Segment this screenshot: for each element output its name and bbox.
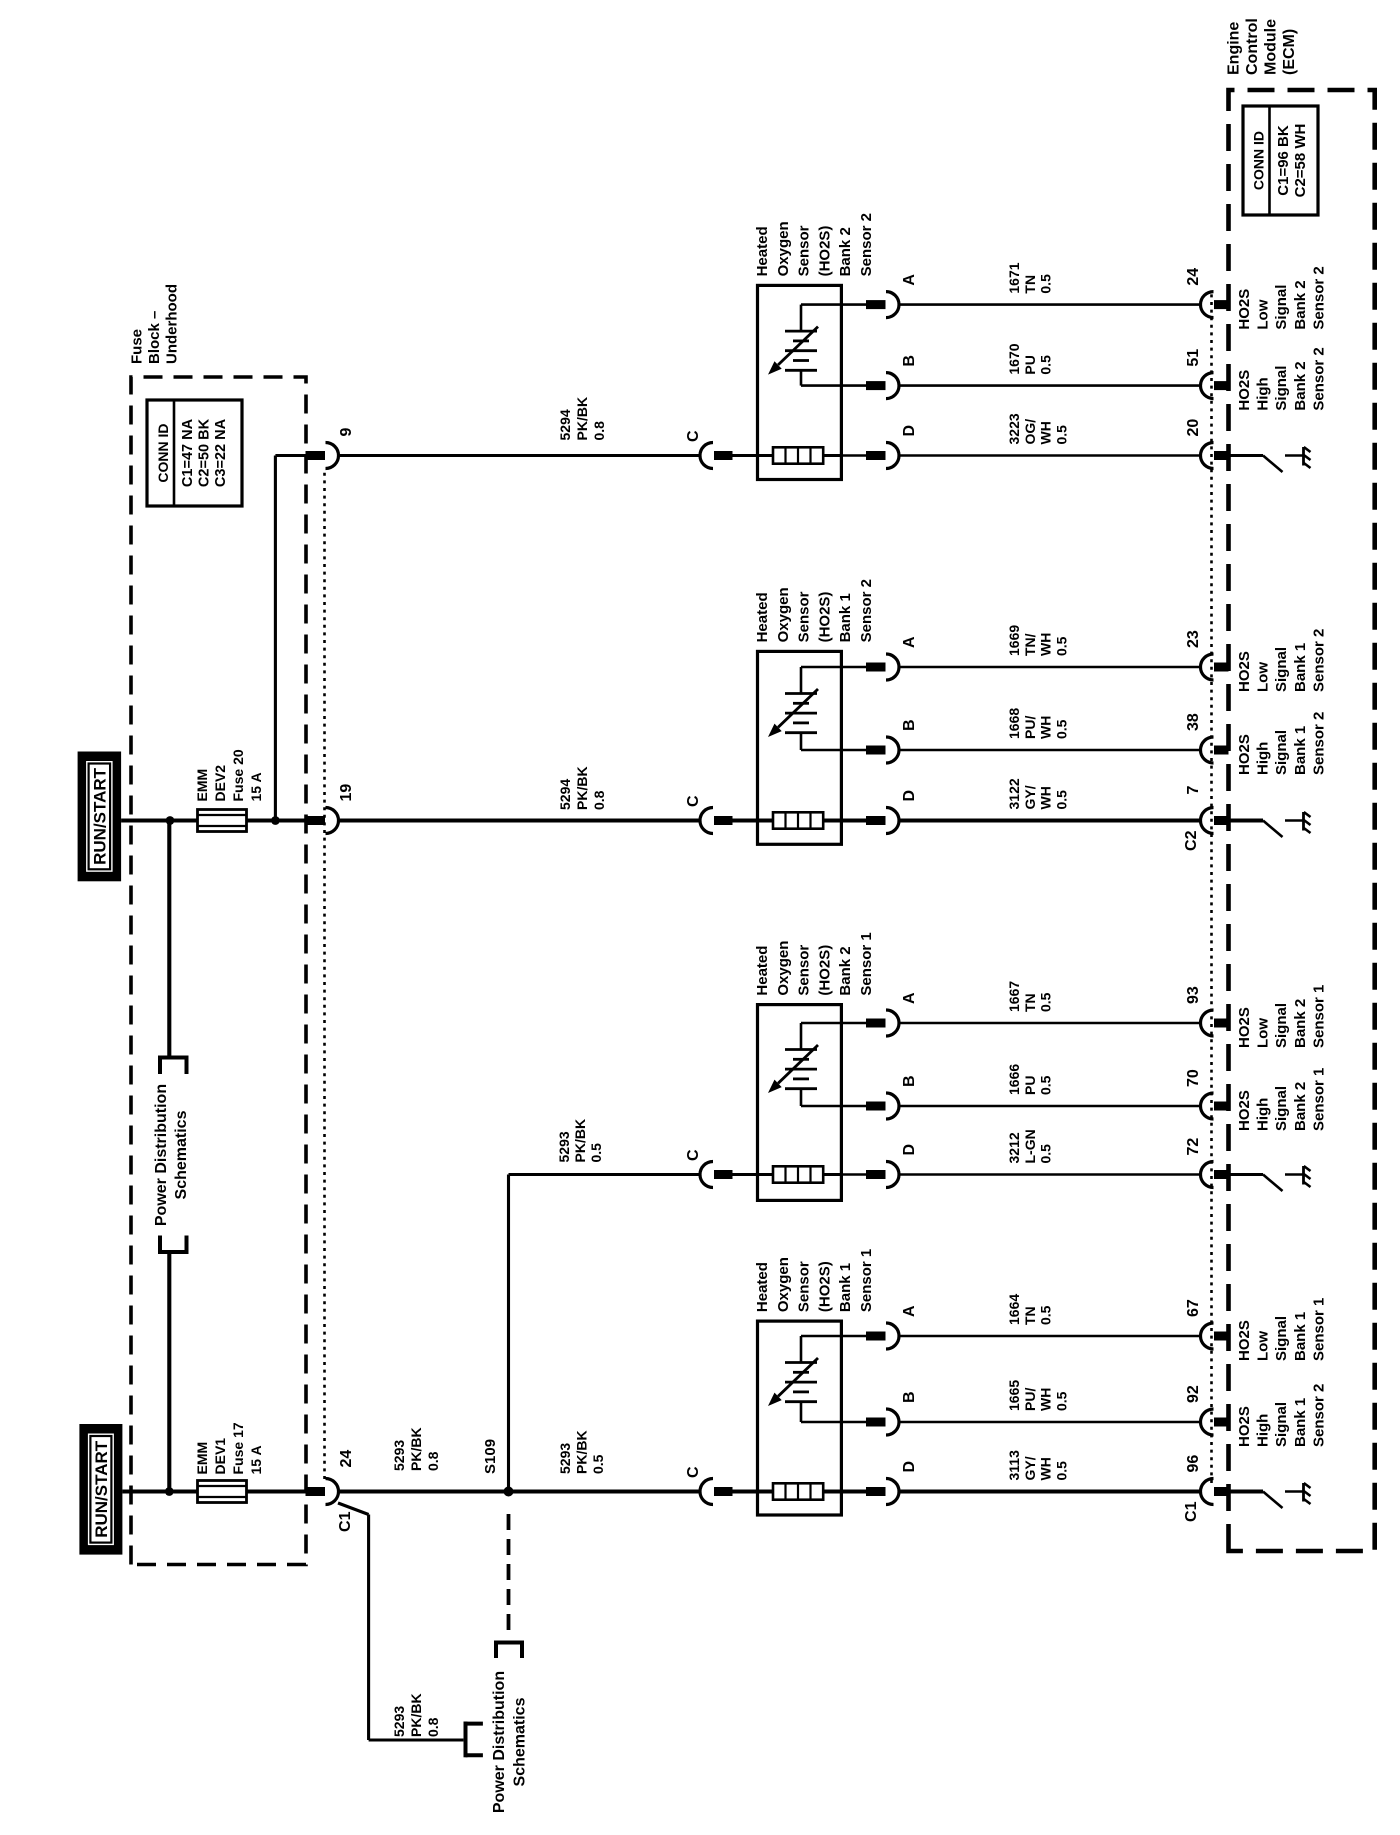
branch wire 5293 PK/BK 0.8 from connector 24 to power distribution (338, 1503, 463, 1740)
svg-text:C: C (685, 1149, 702, 1161)
svg-text:PK/BK: PK/BK (574, 397, 590, 441)
svg-text:Signal: Signal (1273, 366, 1290, 411)
svg-text:Bank 2: Bank 2 (1292, 1082, 1309, 1131)
svg-text:5294: 5294 (557, 409, 573, 440)
svg-text:B: B (901, 1075, 918, 1087)
wire 5293 PK/BK 0.8 conn24 to S109 (339, 1489, 509, 1493)
svg-text:(HO2S): (HO2S) (816, 945, 833, 996)
ECM pin 7 connector (1183, 786, 1229, 851)
svg-text:PK/BK: PK/BK (574, 1430, 590, 1474)
svg-text:PU/: PU/ (1022, 1388, 1038, 1411)
variable arrow sensor B1S2 (768, 689, 818, 737)
ECM signal name for pin 92 (1236, 1384, 1327, 1447)
svg-text:EMM: EMM (194, 769, 210, 802)
svg-text:0.5: 0.5 (1053, 425, 1069, 445)
ECM pin 24 connector (1185, 268, 1229, 318)
svg-text:1670: 1670 (1006, 343, 1022, 374)
sensor B1S1 label (754, 1249, 875, 1312)
svg-text:C1=96 BK: C1=96 BK (1275, 125, 1292, 196)
svg-text:RUN/START: RUN/START (92, 1440, 111, 1538)
sensor B2S2 pin A output (841, 274, 918, 318)
svg-text:5293: 5293 (391, 1440, 407, 1471)
sensor B2S1 pin B output (841, 1075, 918, 1119)
heater wire through sensor B1S1 (823, 1489, 841, 1493)
svg-text:B: B (901, 719, 918, 731)
svg-text:Bank 2: Bank 2 (1292, 999, 1309, 1048)
svg-text:PU: PU (1022, 355, 1038, 374)
sensor B1S2 pin D output (841, 790, 918, 834)
svg-text:Sensor 2: Sensor 2 (1310, 1384, 1327, 1447)
wire label 1671 TN 0.5 (1006, 262, 1054, 293)
svg-text:Bank 1: Bank 1 (837, 1263, 854, 1312)
svg-text:TN: TN (1022, 275, 1038, 294)
svg-text:Oxygen: Oxygen (775, 1257, 792, 1312)
svg-text:1664: 1664 (1006, 1294, 1022, 1325)
sensor B2S1 pin A output (841, 992, 918, 1036)
svg-text:1669: 1669 (1006, 625, 1022, 656)
wire label 3223 OG/ WH 0.5 (1006, 413, 1069, 444)
heated oxygen sensor B2S2 box (758, 285, 842, 479)
svg-text:Sensor 1: Sensor 1 (858, 1249, 875, 1312)
svg-text:GY/: GY/ (1022, 785, 1038, 809)
svg-text:Sensor 1: Sensor 1 (1310, 1298, 1327, 1361)
svg-text:High: High (1255, 1098, 1272, 1131)
svg-text:Control: Control (1244, 18, 1261, 75)
svg-text:72: 72 (1185, 1138, 1202, 1156)
svg-text:70: 70 (1185, 1069, 1202, 1087)
wire ECM pin 7 to internal ground (1229, 818, 1264, 822)
wire sensor B1S2 D to ECM (899, 818, 1201, 822)
svg-text:67: 67 (1185, 1299, 1202, 1317)
heater element (sensor B2S1) (773, 1166, 823, 1182)
ECM signal name for pin 70 (1236, 1068, 1327, 1131)
sensor B1S1 pin A output (841, 1305, 918, 1349)
svg-text:WH: WH (1038, 421, 1054, 444)
ECM signal name for pin 51 (1236, 347, 1327, 410)
svg-text:0.8: 0.8 (425, 1717, 441, 1737)
svg-text:B: B (901, 1391, 918, 1403)
svg-text:(HO2S): (HO2S) (816, 592, 833, 643)
wire ECM pin 20 to internal ground (1229, 454, 1264, 457)
ground (ECM pin 72) (1263, 1166, 1311, 1191)
wire sensor B2S2 A to ECM (899, 303, 1201, 306)
svg-text:DEV1: DEV1 (212, 1438, 228, 1475)
wire sensor B2S1 A to ECM (899, 1022, 1201, 1025)
svg-text:Module: Module (1263, 19, 1280, 75)
ECM pin 92 connector (1185, 1385, 1229, 1435)
variable arrow sensor B1S1 (768, 1358, 818, 1406)
sensor B1S2 pin B output (841, 719, 918, 763)
variable arrow sensor B2S2 (768, 327, 818, 375)
wire label 5294 PK/BK 0.8 (sensor 1 feed) (557, 397, 607, 441)
wire 5294 PK/BK 0.8 connector 9 to C (sensor 1) (339, 454, 702, 457)
svg-text:TN: TN (1022, 1306, 1038, 1325)
heater wire through sensor B2S2 (823, 454, 841, 457)
svg-text:51: 51 (1185, 349, 1202, 367)
wire 5293 PK/BK 0.5 S109 to C (sensor 4) (509, 1489, 702, 1493)
wire label 5294 PK/BK 0.8 (sensor 2 feed) (557, 766, 607, 810)
svg-text:PU/: PU/ (1022, 716, 1038, 739)
ground (ECM pin 20) (1263, 447, 1311, 472)
svg-text:Bank 2: Bank 2 (837, 227, 854, 276)
wire sensor B1S2 B to ECM (899, 749, 1201, 752)
svg-text:96: 96 (1185, 1455, 1202, 1473)
heated oxygen sensor B1S2 box (758, 651, 842, 844)
svg-text:OG/: OG/ (1022, 419, 1038, 445)
svg-text:1666: 1666 (1006, 1064, 1022, 1095)
sensing cell (battery symbol) sensor B2S1 (785, 1023, 841, 1106)
svg-text:HO2S: HO2S (1236, 734, 1253, 775)
svg-text:(ECM): (ECM) (1281, 29, 1298, 75)
svg-text:Signal: Signal (1273, 285, 1290, 330)
svg-text:Schematics: Schematics (173, 1110, 190, 1199)
fuse EMM DEV2 Fuse 20 15 A (194, 749, 264, 831)
ground (ECM pin 96) (1263, 1483, 1311, 1508)
wire sensor B2S2 B to ECM (899, 384, 1201, 387)
svg-text:19: 19 (338, 784, 355, 802)
ECM pin 93 connector (1185, 986, 1229, 1036)
svg-text:WH: WH (1038, 633, 1054, 656)
svg-text:DEV2: DEV2 (212, 765, 228, 802)
off-page bracket ] (dashed ref) (494, 1643, 524, 1659)
svg-text:HO2S: HO2S (1236, 651, 1253, 692)
svg-text:C1=47 NA: C1=47 NA (180, 418, 196, 487)
svg-text:HO2S: HO2S (1236, 1007, 1253, 1048)
svg-text:1665: 1665 (1006, 1380, 1022, 1411)
wire sensor B1S2 A to ECM (899, 666, 1201, 669)
wire label 5293 PK/BK 0.8 (branch) (391, 1693, 441, 1737)
svg-text:(HO2S): (HO2S) (816, 1261, 833, 1312)
svg-text:PK/BK: PK/BK (572, 1119, 588, 1163)
heater wire through sensor B2S1 (823, 1173, 841, 1176)
svg-text:5293: 5293 (391, 1706, 407, 1737)
ECM pin 72 connector (1185, 1138, 1229, 1188)
sensing cell (battery symbol) sensor B2S2 (785, 305, 841, 386)
wire C connector into sensor B1S2 (733, 818, 774, 822)
dashed reference wire from S109 to power distribution (507, 1514, 511, 1637)
sensor B2S2 pin D output (841, 425, 918, 469)
svg-text:0.5: 0.5 (1038, 355, 1054, 375)
wire sensor B1S1 B to ECM (899, 1421, 1201, 1424)
wire sensor B2S1 B to ECM (899, 1105, 1201, 1108)
svg-text:CONN ID: CONN ID (1251, 131, 1267, 190)
svg-text:15 A: 15 A (248, 1445, 264, 1474)
svg-text:0.5: 0.5 (588, 1143, 604, 1163)
svg-text:3212: 3212 (1006, 1132, 1022, 1163)
svg-text:PU: PU (1022, 1076, 1038, 1095)
svg-text:Sensor: Sensor (796, 591, 813, 642)
svg-text:Sensor 1: Sensor 1 (858, 932, 875, 995)
svg-text:0.5: 0.5 (1053, 719, 1069, 739)
ECM signal name for pin 23 (1236, 629, 1327, 692)
reference label Power Distribution Schematics (middle) (153, 1084, 190, 1226)
svg-text:Fuse: Fuse (129, 329, 146, 364)
connector 9 (fuse block) (306, 428, 356, 469)
svg-text:1667: 1667 (1006, 981, 1022, 1012)
wire rail from RUN/START 2 down to fuse EMM DEV1 (122, 1489, 198, 1493)
svg-text:Underhood: Underhood (164, 284, 181, 364)
svg-text:Sensor 2: Sensor 2 (1310, 712, 1327, 775)
C connector (sensor B2S2 heater feed) (685, 430, 733, 469)
sensor B2S2 pin B output (841, 355, 918, 399)
svg-text:A: A (901, 636, 918, 648)
svg-text:Bank 1: Bank 1 (837, 593, 854, 642)
wire sensor B2S2 D to ECM (899, 454, 1201, 457)
sensing cell (battery symbol) sensor B1S1 (785, 1336, 841, 1422)
svg-text:A: A (901, 274, 918, 286)
svg-text:3122: 3122 (1006, 778, 1022, 809)
svg-text:Heated: Heated (754, 226, 771, 276)
wire label 5293 PK/BK 0.5 (after S109) (557, 1430, 606, 1474)
svg-text:Bank 2: Bank 2 (837, 946, 854, 995)
wire sensor B1S1 A to ECM (899, 1335, 1201, 1338)
ECM pin 67 connector (1185, 1299, 1229, 1349)
svg-text:Heated: Heated (754, 946, 771, 996)
svg-text:Signal: Signal (1273, 1003, 1290, 1048)
svg-text:EMM: EMM (194, 1442, 210, 1475)
svg-text:Sensor: Sensor (796, 945, 813, 996)
svg-text:CONN ID: CONN ID (155, 423, 171, 482)
connector 24 (fuse block) + C1 label (306, 1450, 356, 1532)
ECM label Engine Control Module (ECM) (1226, 18, 1299, 75)
svg-text:93: 93 (1185, 986, 1202, 1004)
wire branch to connector 9 (275, 456, 325, 821)
svg-text:D: D (901, 425, 918, 437)
wire label 1665 PU/ WH 0.5 (1006, 1380, 1069, 1411)
svg-text:5294: 5294 (557, 779, 573, 810)
svg-text:Sensor: Sensor (796, 1261, 813, 1312)
sensor B1S1 pin D output (841, 1461, 918, 1505)
svg-text:92: 92 (1185, 1385, 1202, 1403)
wire C connector into sensor B1S1 (733, 1489, 774, 1493)
off-page bracket right ] (158, 1058, 189, 1075)
ECM pin 23 connector (1185, 630, 1229, 680)
svg-text:C2=58 WH: C2=58 WH (1292, 124, 1309, 198)
svg-text:24: 24 (338, 1450, 355, 1468)
svg-text:Engine: Engine (1226, 22, 1243, 75)
wire label 5293 PK/BK 0.5 (sensor 3 feed) (556, 1119, 604, 1163)
heater element (sensor B1S2) (773, 812, 823, 828)
svg-text:Fuse 17: Fuse 17 (230, 1422, 246, 1474)
wire tie line between feeds through power distribution reference (167, 821, 171, 1492)
fuse block label Fuse Block - Underhood (129, 284, 181, 364)
wire label 1668 PU/ WH 0.5 (1006, 708, 1069, 739)
wire rail RUN/START 2 fuse to connector 24 (246, 1489, 325, 1493)
off-page bracket left [ (158, 1236, 189, 1253)
svg-text:Fuse 20: Fuse 20 (230, 749, 246, 801)
svg-text:Power Distribution: Power Distribution (491, 1671, 508, 1813)
svg-text:0.5: 0.5 (590, 1454, 606, 1474)
sensing cell (battery symbol) sensor B1S2 (785, 667, 841, 750)
wire C connector into sensor B2S2 (733, 454, 774, 457)
svg-text:Low: Low (1255, 1018, 1272, 1048)
svg-text:HO2S: HO2S (1236, 1406, 1253, 1447)
svg-text:24: 24 (1185, 268, 1202, 286)
fuse block connector face dotted line C1 (323, 469, 326, 1479)
svg-text:3113: 3113 (1006, 1450, 1022, 1481)
wire label 1664 TN 0.5 (1006, 1294, 1054, 1325)
svg-text:Signal: Signal (1273, 1316, 1290, 1361)
svg-text:Signal: Signal (1273, 647, 1290, 692)
ECM pin 38 connector (1185, 713, 1229, 763)
fuse block - underhood dashed enclosure (131, 377, 306, 1565)
wire 5294 PK/BK 0.8 connector 19 to C (sensor 2) (339, 818, 702, 822)
svg-text:D: D (901, 1461, 918, 1473)
ECM connector face dotted line (1210, 293, 1213, 1483)
svg-text:C1: C1 (337, 1511, 354, 1532)
svg-text:High: High (1255, 377, 1272, 410)
svg-text:HO2S: HO2S (1236, 370, 1253, 411)
C connector (sensor B1S1 heater feed) (685, 1466, 733, 1505)
svg-text:PK/BK: PK/BK (408, 1693, 424, 1737)
wire label 5293 PK/BK 0.8 (before S109) (391, 1427, 441, 1471)
svg-text:A: A (901, 1305, 918, 1317)
wire ECM pin 72 to internal ground (1229, 1173, 1264, 1176)
svg-text:Sensor 2: Sensor 2 (858, 213, 875, 276)
svg-text:Sensor 2: Sensor 2 (858, 579, 875, 642)
svg-text:Block –: Block – (146, 311, 163, 364)
svg-text:Low: Low (1255, 299, 1272, 329)
svg-text:1668: 1668 (1006, 708, 1022, 739)
svg-text:(HO2S): (HO2S) (816, 226, 833, 277)
svg-text:Sensor 2: Sensor 2 (1310, 629, 1327, 692)
svg-text:Heated: Heated (754, 592, 771, 642)
wire rail RUN/START 1 fuse to connector 19 (246, 818, 325, 822)
ECM pin 20 connector (1185, 419, 1229, 469)
svg-text:HO2S: HO2S (1236, 1090, 1253, 1131)
C connector (sensor B1S2 heater feed) (685, 795, 733, 834)
svg-text:C: C (685, 1466, 702, 1478)
svg-text:Bank 2: Bank 2 (1292, 280, 1309, 329)
wire label 1670 PU 0.5 (1006, 343, 1054, 374)
svg-text:Sensor 2: Sensor 2 (1310, 347, 1327, 410)
svg-text:Bank 1: Bank 1 (1292, 643, 1309, 692)
svg-text:38: 38 (1185, 713, 1202, 731)
wire label 3113 GY/ WH 0.5 (1006, 1450, 1069, 1481)
svg-text:0.8: 0.8 (591, 421, 607, 441)
svg-text:Sensor 1: Sensor 1 (1310, 1068, 1327, 1131)
svg-text:0.5: 0.5 (1038, 274, 1054, 294)
svg-text:C2: C2 (1183, 830, 1200, 851)
svg-text:Bank 1: Bank 1 (1292, 1312, 1309, 1361)
heater element (sensor B2S2) (773, 447, 823, 463)
off-page bracket (solid branch) (466, 1722, 483, 1758)
svg-text:0.5: 0.5 (1038, 1144, 1054, 1164)
sensor B2S1 label (754, 932, 875, 995)
svg-text:23: 23 (1185, 630, 1202, 648)
svg-text:Oxygen: Oxygen (775, 221, 792, 276)
svg-text:Signal: Signal (1273, 1086, 1290, 1131)
svg-text:TN: TN (1022, 993, 1038, 1012)
svg-text:WH: WH (1038, 1388, 1054, 1411)
ground (ECM pin 7) (1263, 812, 1311, 837)
wire sensor B1S1 D to ECM (899, 1489, 1201, 1493)
power feed RUN/START (top right) (78, 752, 122, 882)
svg-text:Sensor: Sensor (796, 225, 813, 276)
heated oxygen sensor B2S1 box (758, 1005, 842, 1201)
svg-text:D: D (901, 1144, 918, 1156)
svg-text:3223: 3223 (1006, 413, 1022, 444)
svg-text:0.8: 0.8 (591, 790, 607, 810)
heated oxygen sensor B1S1 box (758, 1321, 842, 1515)
svg-text:WH: WH (1038, 1457, 1054, 1480)
ECM signal name for pin 93 (1236, 985, 1327, 1048)
sensor B2S2 label (754, 213, 875, 276)
svg-text:20: 20 (1185, 419, 1202, 437)
svg-text:7: 7 (1185, 786, 1202, 795)
svg-text:0.5: 0.5 (1053, 636, 1069, 656)
svg-text:PK/BK: PK/BK (574, 766, 590, 810)
splice S109 (482, 1439, 514, 1497)
ECM CONN ID table (1243, 106, 1318, 215)
svg-text:0.8: 0.8 (425, 1451, 441, 1471)
fuse EMM DEV1 Fuse 17 15 A (194, 1422, 264, 1502)
svg-text:Schematics: Schematics (512, 1697, 529, 1786)
svg-text:High: High (1255, 742, 1272, 775)
svg-text:C2=50 BK: C2=50 BK (197, 418, 213, 487)
svg-text:Heated: Heated (754, 1262, 771, 1312)
svg-text:WH: WH (1038, 786, 1054, 809)
ECM signal name for pin 38 (1236, 712, 1327, 775)
wire sensor B2S1 D to ECM (899, 1173, 1201, 1176)
ECM pin 70 connector (1185, 1069, 1229, 1119)
svg-text:PK/BK: PK/BK (408, 1427, 424, 1471)
svg-text:Sensor 2: Sensor 2 (1310, 266, 1327, 329)
wire label 1666 PU 0.5 (1006, 1064, 1054, 1095)
svg-text:S109: S109 (482, 1439, 499, 1474)
ECM signal name for pin 24 (1236, 266, 1327, 329)
wire rail from RUN/START 1 down to fuse EMM DEV2 (121, 818, 198, 822)
wire ECM pin 96 to internal ground (1229, 1489, 1264, 1493)
svg-text:HO2S: HO2S (1236, 289, 1253, 330)
reference label Power Distribution Schematics (bottom) (491, 1671, 529, 1813)
sensor B2S1 pin D output (841, 1144, 918, 1188)
svg-text:Oxygen: Oxygen (775, 587, 792, 642)
svg-text:Bank 1: Bank 1 (1292, 1398, 1309, 1447)
svg-text:Low: Low (1255, 662, 1272, 692)
wire label 3212 L-GN 0.5 (1006, 1129, 1054, 1163)
svg-text:Signal: Signal (1273, 730, 1290, 775)
svg-text:0.5: 0.5 (1053, 1461, 1069, 1481)
ECM pin 51 connector (1185, 349, 1229, 399)
svg-text:C1: C1 (1183, 1501, 1200, 1522)
svg-text:C: C (685, 430, 702, 442)
sensor B1S2 pin A output (841, 636, 918, 680)
wire C connector into sensor B2S1 (733, 1173, 774, 1176)
junction on rail 1 (166, 816, 175, 825)
svg-text:Bank 1: Bank 1 (1292, 726, 1309, 775)
connector 19 (fuse block) (306, 784, 356, 834)
svg-text:TN/: TN/ (1022, 633, 1038, 656)
svg-text:Power Distribution: Power Distribution (153, 1084, 170, 1226)
wire label 3122 GY/ WH 0.5 (1006, 778, 1069, 809)
sensor B1S2 label (754, 579, 875, 642)
svg-text:Low: Low (1255, 1331, 1272, 1361)
wire label 1667 TN 0.5 (1006, 981, 1054, 1012)
svg-text:High: High (1255, 1414, 1272, 1447)
sensor B1S1 pin B output (841, 1391, 918, 1435)
wire branch S109 to sensor 3 row (509, 1175, 702, 1492)
heater element (sensor B1S1) (773, 1483, 823, 1499)
svg-text:15 A: 15 A (248, 772, 264, 801)
heater wire through sensor B1S2 (823, 818, 841, 822)
svg-text:B: B (901, 355, 918, 367)
svg-text:0.5: 0.5 (1038, 992, 1054, 1012)
svg-text:Bank 2: Bank 2 (1292, 361, 1309, 410)
svg-text:A: A (901, 992, 918, 1004)
wire label 1669 TN/ WH 0.5 (1006, 625, 1069, 656)
svg-text:5293: 5293 (556, 1131, 572, 1162)
